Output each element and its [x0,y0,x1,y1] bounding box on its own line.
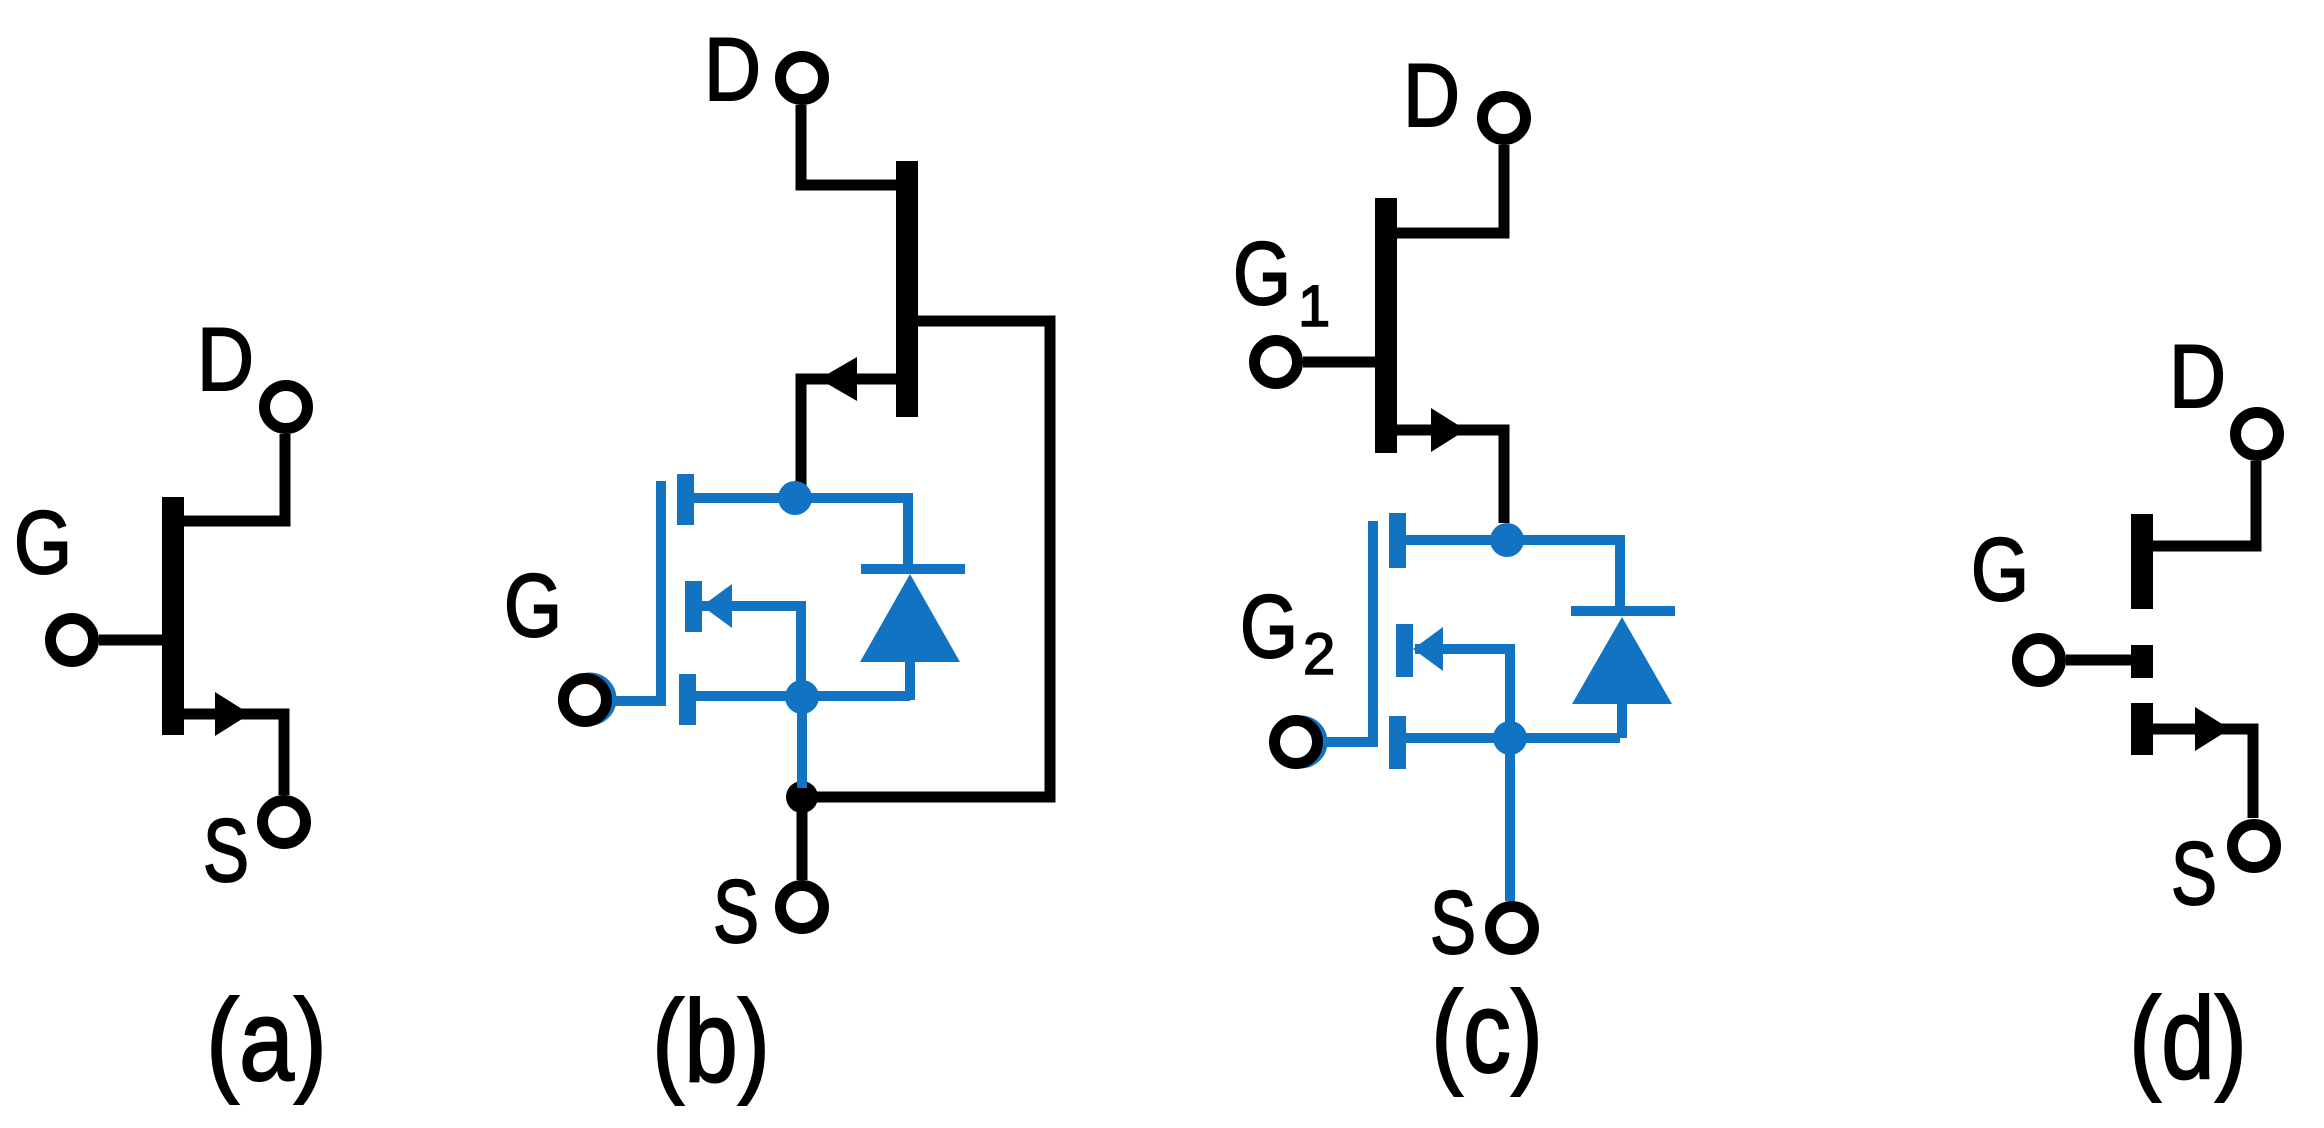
svg-text:G: G [14,492,72,592]
svg-text:1: 1 [1298,274,1330,339]
svg-text:2: 2 [1303,622,1335,687]
svg-text:(a): (a) [206,975,327,1105]
svg-text:S: S [2171,823,2217,923]
svg-text:D: D [197,309,254,409]
svg-text:(c): (c) [1431,967,1543,1097]
svg-text:(d): (d) [2129,973,2247,1103]
svg-text:S: S [1430,872,1476,972]
svg-text:D: D [704,19,761,119]
svg-text:G: G [1233,223,1291,323]
svg-text:G: G [1240,576,1298,676]
svg-text:S: S [713,861,759,961]
svg-text:G: G [1971,519,2029,619]
svg-text:S: S [203,800,249,900]
svg-text:D: D [2169,326,2226,426]
svg-text:D: D [1403,45,1460,145]
svg-text:G: G [504,555,562,655]
svg-text:(b): (b) [652,976,770,1106]
